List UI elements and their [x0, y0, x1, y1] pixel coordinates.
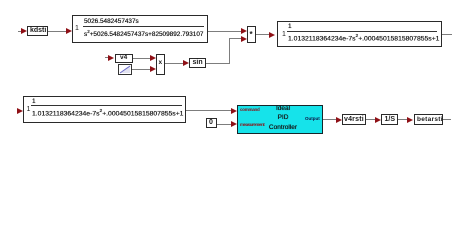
- wire PID to v4rsti: [323, 119, 337, 120]
- block 1/S: [381, 114, 398, 125]
- wire P2 to TF2: [256, 34, 270, 35]
- PID controller block: [237, 105, 323, 134]
- block v4: [115, 54, 133, 63]
- wire v4 to product P1: [133, 58, 151, 59]
- wire sin to product P2: [229, 38, 242, 39]
- transfer function TF2: [277, 21, 442, 47]
- transfer function TF3: [23, 96, 186, 123]
- wire sin vertical up: [229, 38, 230, 63]
- block betarsti: [414, 114, 443, 125]
- wire TF3 to PID command: [186, 110, 232, 111]
- ramp block: [118, 64, 132, 75]
- product P1: [156, 54, 165, 75]
- wire sin right: [206, 63, 230, 64]
- input arrow into kdsti: [18, 31, 22, 32]
- input arrow into TF3: [17, 108, 23, 114]
- wire constant to PID measurement: [217, 124, 232, 125]
- wire TF1 to product P2: [208, 31, 242, 32]
- product P2: [247, 26, 256, 43]
- block sin: [189, 58, 206, 68]
- block kdsti: [27, 26, 48, 36]
- wire betarsti output stub: [443, 119, 451, 120]
- wire kdsti to TF1: [48, 31, 67, 32]
- constant block 0: [206, 118, 217, 128]
- wire ramp to product P1: [132, 69, 151, 70]
- transfer function TF1: [72, 15, 208, 43]
- wire 1/S to betarsti: [398, 119, 408, 120]
- block v4rsti: [342, 114, 366, 125]
- wire v4rsti to 1/S: [366, 119, 376, 120]
- wire P1 to sin: [165, 63, 184, 64]
- input arrow into v4: [105, 57, 109, 58]
- wire TF2 output stub: [442, 34, 452, 35]
